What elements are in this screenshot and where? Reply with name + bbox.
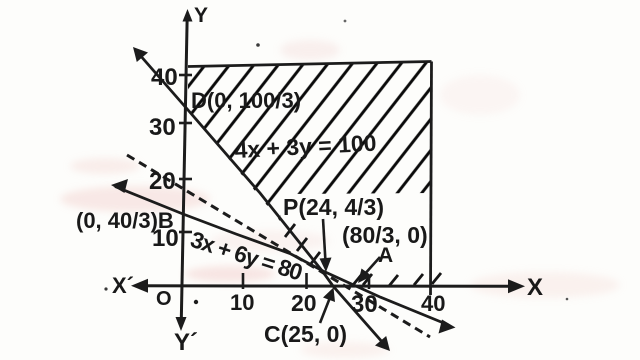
arrow pointer from A label to point A — [358, 257, 380, 283]
svg-text:O: O — [156, 288, 172, 310]
Y axis with arrowheads — [176, 9, 193, 331]
scan smudge right of X label — [470, 272, 620, 298]
x-axis tick 30 — [368, 276, 371, 289]
y-axis tick 20 — [179, 178, 192, 181]
x-axis tick 20 — [305, 273, 308, 289]
svg-text:40: 40 — [421, 291, 445, 316]
svg-text:20: 20 — [291, 290, 317, 316]
svg-text:30: 30 — [351, 291, 378, 318]
scan smudge upper right — [440, 75, 520, 115]
scan smudge bottom center — [300, 342, 390, 358]
scan smudge band left-middle — [60, 186, 210, 212]
scan smudge small left — [70, 158, 140, 174]
svg-text:(0, 40/3)B: (0, 40/3)B — [76, 208, 174, 233]
line 4x+3y=100 with arrowheads — [133, 47, 390, 351]
svg-text:X: X — [527, 274, 543, 301]
svg-text:X´: X´ — [112, 273, 134, 298]
svg-text:P(24, 4/3): P(24, 4/3) — [283, 194, 384, 220]
arrow pointer from P label to point P — [320, 219, 332, 272]
y-axis tick 40 — [179, 74, 192, 77]
svg-text:A: A — [378, 244, 393, 267]
svg-text:Y: Y — [194, 4, 208, 27]
speck top — [344, 20, 347, 23]
right boundary line of shaded region at x=40 — [431, 62, 432, 296]
svg-text:20: 20 — [149, 168, 176, 195]
X axis with arrowheads — [131, 279, 525, 294]
y-axis tick 30 — [179, 122, 192, 125]
speck top center — [256, 43, 260, 47]
x-axis tick 10 — [242, 273, 245, 289]
scan smudge mid-left — [210, 230, 330, 252]
svg-text:C(25, 0): C(25, 0) — [264, 321, 347, 347]
svg-text:D(0, 100/3): D(0, 100/3) — [191, 88, 301, 113]
svg-text:10: 10 — [230, 290, 254, 315]
speck right of X — [566, 298, 569, 301]
arrow pointer from C label to point C — [320, 288, 335, 324]
hatched feasible region — [188, 62, 441, 287]
y-axis tick 10 — [179, 231, 192, 234]
dashed objective line through P — [127, 155, 430, 337]
svg-text:30: 30 — [149, 114, 176, 141]
line 3x+6y=80 with arrowheads — [111, 179, 456, 334]
speck left of X prime — [104, 287, 107, 290]
svg-text:40: 40 — [151, 64, 178, 91]
svg-text:Y´: Y´ — [174, 329, 198, 356]
small dot right of O — [194, 300, 198, 304]
scan smudge top center — [280, 40, 340, 60]
scan smudge near origin — [185, 266, 275, 282]
top boundary line of shaded region — [188, 62, 432, 67]
